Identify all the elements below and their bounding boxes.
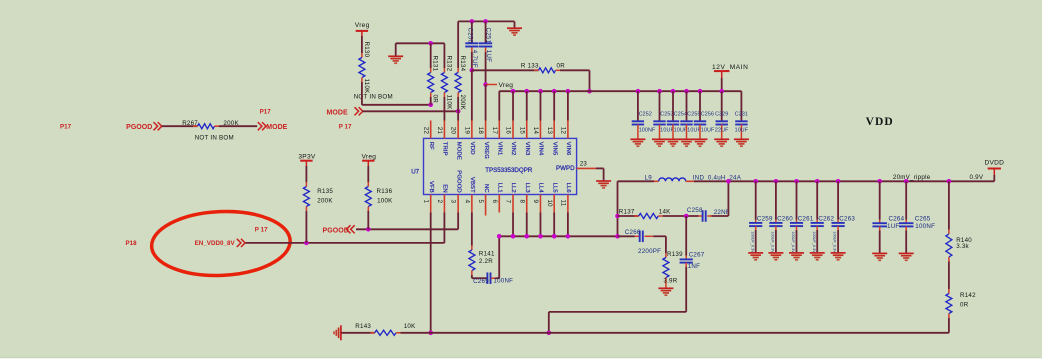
resistor R137 14K: [618, 215, 639, 217]
svg-text:18: 18: [477, 127, 484, 135]
capacitor C250 4.7UF: [471, 21, 473, 42]
svg-text:LL1: LL1: [497, 183, 503, 193]
svg-text:20mV_ripple: 20mV_ripple: [893, 174, 931, 181]
wire bottom feedback: [401, 332, 949, 334]
junction LL6: [566, 234, 571, 239]
ground (pin 23): [596, 180, 611, 182]
wire LL bus: [499, 235, 617, 237]
svg-text:C329: C329: [715, 112, 728, 118]
ground (C260): [768, 252, 783, 254]
svg-text:VDD: VDD: [866, 116, 894, 128]
svg-text:7: 7: [505, 200, 512, 204]
junction VIN3 pin: [524, 89, 529, 94]
wire VFB pin1 down: [430, 213, 432, 333]
capacitor C256 10UF: [698, 89, 703, 94]
svg-text:22: 22: [422, 127, 429, 135]
wire LL6 pin down: [567, 213, 569, 237]
svg-text:VFB: VFB: [428, 181, 434, 193]
svg-text:14K: 14K: [659, 209, 671, 216]
svg-text:0R: 0R: [432, 95, 439, 104]
pin 2 EN stub: [443, 195, 445, 213]
pin 12 VIN6 stub: [567, 121, 569, 139]
pin 13 VIN5 stub: [553, 121, 555, 139]
ground (C259): [748, 252, 763, 254]
svg-text:LL3: LL3: [524, 183, 530, 194]
junction LL3: [524, 234, 529, 239]
svg-text:R139: R139: [667, 251, 683, 258]
pin 18 VREG stub: [485, 121, 487, 139]
svg-text:2.2R: 2.2R: [479, 258, 493, 265]
svg-text:22NF: 22NF: [714, 209, 730, 216]
svg-text:C256: C256: [701, 112, 714, 118]
svg-text:0R: 0R: [960, 301, 969, 308]
svg-text:VIN1: VIN1: [497, 142, 503, 156]
svg-text:RF: RF: [428, 142, 434, 150]
ground (C256): [693, 138, 708, 140]
svg-text:2200PF: 2200PF: [638, 248, 661, 255]
pin 6 LL1 stub: [498, 195, 500, 213]
svg-text:R137: R137: [619, 209, 635, 216]
svg-text:VIN5: VIN5: [551, 142, 557, 156]
svg-text:VIN2: VIN2: [510, 142, 516, 156]
pin 21 TRIP stub: [443, 121, 445, 139]
pin 4 VBST stub: [471, 195, 473, 213]
ground (C255): [679, 138, 694, 140]
junction R133/VIN bus: [587, 89, 592, 94]
svg-text:NC: NC: [483, 184, 489, 193]
pin 17 VIN1 stub: [498, 121, 500, 139]
pin 8 LL3 stub: [526, 195, 528, 213]
svg-text:16: 16: [505, 127, 512, 135]
svg-text:0R: 0R: [557, 63, 566, 70]
pin 10 LL5 stub: [553, 195, 555, 213]
svg-text:C269: C269: [473, 278, 489, 285]
ground (C263): [831, 252, 846, 254]
svg-text:LL2: LL2: [510, 183, 516, 193]
capacitor C255 10UF: [684, 89, 689, 94]
svg-text:20: 20: [450, 127, 457, 135]
pin 1 VFB stub: [430, 195, 432, 213]
capacitor C329 22UF: [719, 89, 724, 94]
svg-text:17: 17: [491, 127, 498, 135]
svg-text:1UF: 1UF: [485, 50, 492, 62]
capacitor C253 10UF: [657, 89, 662, 94]
svg-text:VIN6: VIN6: [565, 142, 571, 156]
wire VIN pin up: [526, 91, 528, 120]
svg-text:14: 14: [532, 127, 539, 135]
inductor L9 IND_0.4uH_24A: [618, 180, 655, 182]
pin 20 MODE stub: [457, 121, 459, 139]
pin 14 VIN4 stub: [539, 121, 541, 139]
wire VIN pin up: [539, 91, 541, 120]
capacitor C254 10UF: [671, 89, 676, 94]
svg-text:MODE: MODE: [266, 124, 287, 131]
svg-text:C253: C253: [660, 112, 673, 118]
svg-text:C260: C260: [777, 215, 793, 222]
capacitor C258 22NF: [699, 215, 703, 217]
junction C251 top: [483, 19, 488, 24]
svg-text:1UF: 1UF: [887, 223, 899, 230]
svg-text:VIN3: VIN3: [524, 142, 530, 156]
svg-text:P18: P18: [126, 240, 138, 247]
svg-text:10UF: 10UF: [735, 128, 749, 134]
svg-text:P 17: P 17: [255, 226, 268, 233]
svg-text:5: 5: [477, 200, 484, 204]
pin 16 VIN2 stub: [512, 121, 514, 139]
svg-text:U7: U7: [411, 169, 419, 176]
resistor R139 3.9R: [665, 236, 667, 253]
svg-text:C262: C262: [818, 215, 834, 222]
junction LL5: [552, 234, 557, 239]
junction VIN6 pin: [566, 89, 571, 94]
junction VDD pin19 / C250 / R133: [470, 68, 475, 73]
resistor R132 110K (pin21): [443, 43, 445, 68]
ground (C254): [666, 138, 681, 140]
wire R142 to bottom wire: [948, 318, 950, 333]
junction VIN5 pin: [552, 89, 557, 94]
capacitor C269 100NF: [472, 277, 487, 279]
ground (C264): [872, 252, 887, 254]
svg-text:10: 10: [546, 200, 553, 208]
junction R131 top: [428, 41, 433, 46]
svg-text:C264: C264: [889, 215, 905, 222]
wire VDD output rail: [694, 180, 995, 182]
junction C258/rail: [726, 179, 731, 184]
capacitor C261 100UF_6.3V: [794, 179, 799, 184]
svg-text:19: 19: [463, 127, 470, 135]
svg-text:100NF: 100NF: [639, 128, 656, 134]
svg-text:NOT IN BOM: NOT IN BOM: [354, 94, 393, 101]
junction C267 tap: [684, 214, 689, 219]
wire R137 to C258: [663, 215, 699, 217]
resistor R136 100K: [367, 166, 369, 182]
page bottom edge: [0, 357, 1042, 358]
svg-text:DVDD: DVDD: [985, 159, 1005, 166]
svg-text:MODE: MODE: [327, 109, 348, 116]
ground (C252): [630, 138, 645, 140]
svg-text:LL6: LL6: [565, 183, 571, 194]
svg-text:C251: C251: [485, 28, 492, 44]
svg-text:MODE: MODE: [455, 142, 461, 160]
svg-text:R130: R130: [363, 42, 370, 58]
capacitor C267 1NF: [685, 216, 687, 256]
wire VDD pin19: [471, 70, 473, 120]
resistor R135 200K: [305, 166, 307, 182]
svg-text:C267: C267: [689, 251, 705, 258]
junction VFB/bottom wire: [428, 331, 433, 336]
capacitor C251 1UF: [485, 21, 487, 42]
capacitor C266 2200PF: [635, 235, 640, 237]
ground (R139): [658, 287, 673, 289]
svg-text:C331: C331: [735, 112, 748, 118]
junction C267 return/bottom wire: [547, 331, 552, 336]
svg-text:NOT IN BOM: NOT IN BOM: [195, 135, 234, 142]
svg-text:C258: C258: [687, 207, 703, 214]
svg-text:1: 1: [422, 200, 429, 204]
svg-text:4: 4: [463, 200, 470, 204]
ground (C261): [789, 252, 804, 254]
capacitor C264 1UF: [877, 179, 882, 184]
svg-text:200K: 200K: [317, 197, 333, 204]
junction C250 top: [470, 19, 475, 24]
capacitor C331 10UF: [740, 91, 742, 121]
svg-text:C261: C261: [798, 215, 814, 222]
pin 5 NC stub: [485, 195, 487, 216]
svg-text:VIN4: VIN4: [538, 142, 544, 156]
wire ground to R131/R132 tops: [396, 42, 445, 44]
svg-text:100K: 100K: [377, 197, 393, 204]
capacitor C260 100UF_6.3V: [774, 179, 779, 184]
wire R140 to R142: [948, 262, 950, 290]
resistor R130 110K NOT IN BOM: [361, 36, 363, 53]
pin 9 LL4 stub: [539, 195, 541, 213]
svg-text:R141: R141: [479, 250, 495, 257]
ground (R143, sideways): [340, 325, 342, 340]
svg-text:Vreg: Vreg: [499, 82, 514, 89]
svg-text:TPS53353DQPR: TPS53353DQPR: [485, 167, 533, 174]
ground (C253): [652, 138, 667, 140]
wire VIN1 pin17 up: [498, 91, 500, 120]
svg-text:VBST: VBST: [469, 177, 475, 193]
capacitor C252 100NF: [636, 89, 641, 94]
svg-text:100UF_6.3V: 100UF_6.3V: [791, 231, 795, 253]
svg-text:9: 9: [532, 200, 539, 204]
svg-text:23: 23: [580, 161, 588, 168]
svg-text:R136: R136: [377, 188, 393, 195]
wire R267 to MODE: [215, 125, 220, 127]
resistor R143 10K: [341, 332, 375, 334]
pin 15 VIN3 stub: [526, 121, 528, 139]
svg-text:EN: EN: [442, 184, 448, 192]
svg-text:100NF: 100NF: [915, 223, 935, 230]
junction LL1 corner: [497, 234, 502, 239]
ground (C262): [810, 252, 825, 254]
svg-text:3.9R: 3.9R: [663, 277, 677, 284]
junction LL2: [511, 234, 516, 239]
wire LL2 pin down: [512, 213, 514, 237]
wire PGOOD to R267: [162, 125, 198, 127]
resistor R133 0R: [472, 69, 539, 71]
wire switch node vertical: [617, 181, 619, 236]
wire C258 to rail: [712, 215, 729, 217]
svg-text:Vreg: Vreg: [362, 153, 377, 160]
svg-text:PGOOD: PGOOD: [126, 124, 152, 131]
ground (C329): [714, 138, 729, 140]
svg-text:C259: C259: [757, 215, 773, 222]
capacitor C263 100UF_6.3V: [836, 179, 841, 184]
svg-text:13: 13: [546, 127, 553, 135]
ground (C265): [899, 252, 914, 254]
wire C267 return: [685, 267, 687, 312]
svg-text:11: 11: [560, 200, 567, 207]
wire VREG pin18: [485, 85, 487, 121]
svg-text:100UF_6.3V: 100UF_6.3V: [771, 231, 775, 253]
junction MODE/R134: [456, 109, 461, 114]
wire VIN pin up: [553, 91, 555, 120]
resistor R141 2.2R (pin4 VBST): [471, 213, 473, 246]
svg-text:100UF_6.3V: 100UF_6.3V: [833, 231, 837, 253]
svg-text:100UF_6.3V: 100UF_6.3V: [750, 231, 754, 253]
svg-text:110K: 110K: [363, 79, 370, 95]
resistor R140 3.3k: [947, 179, 952, 184]
wire R130 bottom to pin22 node: [361, 82, 363, 105]
svg-text:100UF_6.3V: 100UF_6.3V: [812, 231, 816, 253]
svg-text:3.3k: 3.3k: [956, 243, 969, 250]
svg-text:3P3V: 3P3V: [298, 153, 315, 160]
op-amp U7 TPS53353DQPR body: [424, 138, 577, 194]
svg-text:C255: C255: [687, 112, 700, 118]
svg-text:12: 12: [560, 127, 567, 135]
svg-text:VDD: VDD: [469, 142, 475, 155]
svg-text:TRIP: TRIP: [442, 142, 448, 156]
resistor R142 0R: [948, 289, 950, 294]
svg-text:PGOOD: PGOOD: [455, 170, 461, 193]
wire LL3 pin down: [526, 213, 528, 237]
svg-text:10K: 10K: [404, 323, 416, 330]
capacitor C262 100UF_6.3V: [815, 179, 820, 184]
junction VIN4 pin: [538, 89, 543, 94]
junction pin22/R131 bottom: [428, 103, 433, 108]
resistor R131 0R: [430, 43, 432, 68]
svg-text:1NF: 1NF: [688, 263, 700, 270]
wire LL5 pin down: [553, 213, 555, 237]
wire R133 to VIN bus: [560, 69, 590, 71]
junction VIN2 pin: [511, 89, 516, 94]
junction LL4: [538, 234, 543, 239]
svg-text:21: 21: [436, 127, 443, 135]
junction R137 tap: [615, 214, 620, 219]
junction VREG pin18 / Vreg label: [483, 82, 488, 87]
svg-text:22UF: 22UF: [715, 128, 729, 134]
svg-text:PWPD: PWPD: [556, 165, 575, 172]
wire R134 top / C250 / C251 / ground: [458, 20, 514, 22]
svg-text:C265: C265: [915, 215, 931, 222]
svg-text:P17: P17: [260, 109, 272, 116]
svg-text:R 133: R 133: [521, 63, 539, 70]
capacitor C265 100NF: [904, 179, 909, 184]
resistor R267 200K: [198, 124, 215, 129]
svg-text:LL5: LL5: [551, 183, 557, 194]
pin 22 RF stub: [430, 121, 432, 139]
svg-text:R131: R131: [432, 56, 439, 72]
svg-text:VREG: VREG: [483, 142, 489, 159]
svg-text:R143: R143: [355, 323, 371, 330]
svg-text:4.7UF: 4.7UF: [471, 50, 478, 68]
svg-text:C266: C266: [625, 229, 641, 236]
svg-text:R135: R135: [317, 188, 333, 195]
capacitor C259 100UF_6.3V: [753, 179, 758, 184]
junction LL bus / switch node: [615, 234, 620, 239]
net label Vreg (pin18): [486, 84, 497, 86]
svg-text:3: 3: [450, 200, 457, 204]
junction R136/PGOOD: [366, 227, 371, 232]
svg-text:Vreg: Vreg: [355, 22, 370, 29]
svg-text:LL4: LL4: [538, 183, 544, 194]
svg-text:L9: L9: [645, 175, 653, 182]
ground (left of R131): [395, 43, 397, 56]
svg-text:R267: R267: [182, 120, 198, 127]
svg-text:15: 15: [518, 127, 525, 135]
ground (top right): [514, 21, 516, 27]
svg-text:100NF: 100NF: [493, 277, 513, 284]
wire LL4 pin down: [539, 213, 541, 237]
svg-text:8: 8: [518, 200, 525, 204]
wire C269 to LL column: [498, 236, 500, 278]
svg-text:10UF: 10UF: [701, 128, 715, 134]
svg-text:110K: 110K: [445, 95, 452, 111]
ground (C331): [734, 138, 749, 140]
wire VIN pin up: [567, 91, 569, 120]
svg-text:C252: C252: [639, 112, 652, 118]
svg-text:P17: P17: [60, 123, 72, 130]
wire PGOOD net: [356, 228, 458, 230]
wire MODE to pin20: [363, 110, 459, 112]
svg-text:EN_VDD0_8V: EN_VDD0_8V: [195, 240, 236, 247]
wire VIN pin up: [512, 91, 514, 120]
svg-text:6: 6: [491, 200, 498, 204]
svg-text:2: 2: [436, 200, 443, 204]
svg-text:PGOOD: PGOOD: [323, 227, 349, 234]
svg-text:C250: C250: [467, 28, 474, 44]
pin 19 VDD stub: [471, 121, 473, 139]
svg-text:P 17: P 17: [339, 124, 352, 131]
svg-text:R142: R142: [960, 292, 976, 299]
junction R135/EN: [304, 241, 309, 246]
svg-text:C263: C263: [839, 215, 855, 222]
pin 7 LL2 stub: [512, 195, 514, 213]
wire EN net: [246, 242, 445, 244]
wire VIN bus: [499, 90, 741, 92]
svg-text:200K: 200K: [459, 95, 466, 111]
svg-text:R134: R134: [459, 56, 466, 72]
svg-text:R132: R132: [445, 56, 452, 72]
resistor R134 200K (pin20): [457, 21, 459, 68]
svg-text:0.9V: 0.9V: [970, 174, 984, 181]
svg-text:C254: C254: [674, 112, 687, 118]
pin 3 PGOOD stub: [457, 195, 459, 213]
highlight ellipse (red): [150, 209, 291, 279]
pin 11 LL6 stub: [567, 195, 569, 213]
